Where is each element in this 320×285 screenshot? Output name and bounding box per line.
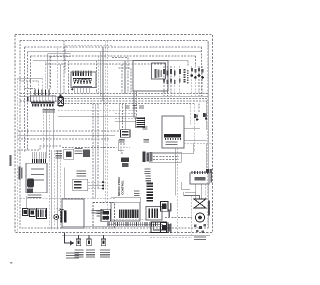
wire risers below display module xyxy=(74,88,90,94)
wire y237.8 bottom right xyxy=(150,237,192,239)
wire bus y208.4 short xyxy=(56,207,62,209)
latch switch dark blob xyxy=(27,189,33,194)
wire corner A into display module xyxy=(65,46,112,73)
wire corner near K1 xyxy=(111,197,140,205)
wire mid bus y101 xyxy=(20,100,208,102)
labels above P4 row xyxy=(125,105,144,109)
spark module dark terminal bar xyxy=(164,134,181,138)
label right of module xyxy=(75,148,83,154)
wire left bus x17.6 xyxy=(17,78,19,233)
label MICRO-PROC CONTROL rotated xyxy=(117,176,124,196)
wire mid bus y96 xyxy=(20,95,208,97)
thermostat TCO dark marks xyxy=(206,169,212,173)
door switch blob A xyxy=(22,208,28,215)
label left margin rotated xyxy=(10,155,12,166)
second blob module xyxy=(83,150,90,158)
door switch DS2 xyxy=(87,235,91,245)
wire right bus x201.5 xyxy=(201,47,203,96)
label row above P1 right xyxy=(134,191,140,197)
wire top bus y56 xyxy=(31,55,196,57)
door switch DS3 xyxy=(101,235,105,245)
wire drop below border left xyxy=(65,233,71,244)
wire latch riser x57.3 xyxy=(56,150,58,230)
label P5 rotated xyxy=(27,97,29,101)
wire corner to fan xyxy=(184,192,200,199)
wire x206 down xyxy=(205,101,207,130)
wire bus y198.3 xyxy=(20,197,115,199)
wire right col y140.5 xyxy=(184,140,207,142)
door lock motor body xyxy=(58,97,64,106)
oven light module outer box xyxy=(133,61,168,92)
label 33 ohm xyxy=(76,171,86,177)
label door latch rotated xyxy=(19,167,23,180)
wires right of ERC header xyxy=(153,154,194,160)
label right of relay xyxy=(143,139,149,142)
capacitor symbol xyxy=(59,209,67,222)
wire latch riser x51.9 xyxy=(51,150,53,230)
ERC output wires box xyxy=(149,152,181,162)
wire labels under P5 xyxy=(43,109,56,112)
wire x43.3 down from P5 xyxy=(42,108,44,149)
label 3.3K text xyxy=(144,169,150,175)
wire to door lock motor xyxy=(59,64,61,94)
label left of module xyxy=(55,151,62,159)
wire x190.6 down xyxy=(190,104,192,126)
junction lamp circle xyxy=(54,215,59,220)
wire dashed x177.3 xyxy=(176,148,178,235)
wire x105.6 vertical xyxy=(105,41,107,203)
wire corner left of DSI xyxy=(182,182,196,192)
connector P5 housing xyxy=(31,95,56,102)
wire mid bus y98.5 xyxy=(58,98,208,100)
label under DS3 xyxy=(100,250,110,258)
wire x136.5 below oven light box xyxy=(136,91,138,118)
wire x193.6 stub xyxy=(193,143,195,154)
wire left bus x27.5 xyxy=(27,52,29,151)
wire below border y235.4 xyxy=(62,234,210,236)
contact dots right-center xyxy=(203,113,207,120)
contact dots second switch group xyxy=(191,74,204,79)
wire x64 vertical xyxy=(63,41,65,94)
spark module box xyxy=(162,116,184,148)
relay box dashed xyxy=(93,203,115,229)
label under relay RL1 xyxy=(119,139,125,142)
wire y135 xyxy=(18,134,115,136)
wire latch riser x54.6 xyxy=(54,150,56,230)
wire x96.5 vertical xyxy=(96,61,98,94)
label under DS2 xyxy=(86,250,95,258)
wire x100.8 dark vertical xyxy=(100,52,102,97)
fan motor terminals xyxy=(194,224,206,233)
fan motor bowtie symbol xyxy=(194,199,206,208)
label column below 3.3K xyxy=(145,176,151,182)
wire x98 vertical xyxy=(97,104,99,191)
probe jack box xyxy=(73,179,88,190)
door switch DS1 xyxy=(76,235,80,245)
wire mid bus y103.5 xyxy=(58,103,194,105)
wire corner C into display module xyxy=(51,57,71,90)
speck bottom-left margin xyxy=(10,262,12,263)
label under probe area xyxy=(92,210,105,214)
wire mid bus y93.5 xyxy=(20,93,208,95)
wire riser to door switch xyxy=(26,196,28,208)
wire dashed x191.9 xyxy=(191,196,193,236)
wire stubs above P9 xyxy=(32,152,45,159)
probe wire end dots xyxy=(102,181,104,190)
connector P2 dark pin stack xyxy=(146,183,153,202)
wire x57.3 vertical xyxy=(56,48,58,94)
door lock motor terminal xyxy=(59,94,61,97)
indicator lamp symbols row xyxy=(74,79,92,85)
connector P1 housing box xyxy=(111,202,140,221)
connector P9 pin row xyxy=(32,159,46,163)
relay RL1 block xyxy=(121,130,131,137)
wire left stub y78 xyxy=(18,77,43,79)
fan motor winding circle xyxy=(195,213,204,222)
wire x134 below oven light box xyxy=(133,91,135,118)
wire y139 xyxy=(18,138,110,140)
pin number labels above P3 xyxy=(73,70,92,71)
DSI spark module box xyxy=(190,171,209,184)
door switch blob B xyxy=(29,209,35,217)
latch motor dark blob xyxy=(27,179,34,188)
wire left bus x24.5 xyxy=(24,47,26,152)
spark electrode box upper xyxy=(160,202,168,212)
wire y226.6 xyxy=(62,226,165,228)
wire left stub y88.5 xyxy=(25,88,36,90)
svg-text:CONTROL: CONTROL xyxy=(121,180,125,195)
wire corners top of ERC xyxy=(118,140,130,153)
connector P5 dark contact row xyxy=(31,102,54,103)
oven light module inner box xyxy=(152,63,166,79)
wire x46.1 down from P5 xyxy=(45,108,47,159)
wire x95.5 vertical xyxy=(95,104,97,199)
wires feeding center connector xyxy=(58,110,136,121)
outer dashed border of wiring diagram xyxy=(15,35,213,233)
inner border wire loop (L1 bus) xyxy=(20,41,208,229)
wire riser lock motor xyxy=(64,168,66,200)
label under fan motor xyxy=(194,237,206,241)
wire x199 down xyxy=(198,104,200,114)
relay label text xyxy=(97,210,100,216)
wire right bus x195.5 xyxy=(195,56,197,66)
wire stepped dashed into latch xyxy=(18,146,62,150)
label right of electrode upper xyxy=(170,203,172,212)
connector P4 dark pin stack xyxy=(136,117,145,127)
display module box DSP xyxy=(71,72,96,88)
wire right col y143.4 xyxy=(184,142,213,144)
wire x175.2 vertical xyxy=(174,148,176,196)
hatched multiwire bus y222 xyxy=(108,222,159,226)
connector P1 dark header xyxy=(119,210,139,219)
oven light label text xyxy=(154,69,162,78)
wires DSI box to fan xyxy=(196,184,206,199)
connector P5 lower pins xyxy=(32,104,54,107)
label right of electrode lower xyxy=(170,224,172,233)
wire left bus x30.5 xyxy=(30,56,32,95)
connector block bottom-left xyxy=(37,208,47,218)
wires into relay RL1 xyxy=(120,104,126,130)
fuse box at bottom border xyxy=(151,222,170,233)
wire y217.5 right xyxy=(165,217,192,219)
relay contacts dark cluster xyxy=(101,209,110,221)
wire x194.6 down dashed xyxy=(194,104,196,153)
wire x93 vertical xyxy=(92,104,94,199)
ERC input header dark glyphs xyxy=(142,151,152,162)
label DSI rotated xyxy=(210,173,212,183)
connector P5 cell dividers xyxy=(33,95,55,102)
wire top bus y60.5 xyxy=(33,60,188,62)
wire top bus y51.5 xyxy=(28,51,202,53)
wires probe jack to right xyxy=(88,182,104,188)
wire right col y128 xyxy=(184,127,200,129)
relay K1 box xyxy=(146,207,170,221)
label below border left xyxy=(66,252,79,258)
wire latch riser x49.2 xyxy=(48,150,50,230)
ground arrow below border xyxy=(70,241,74,246)
wire top bus y47 xyxy=(25,46,202,48)
wire y131 xyxy=(18,130,120,132)
wire x107.8 vertical xyxy=(107,41,109,222)
wire latch riser x60.0 xyxy=(59,150,61,230)
wire x68.5 vertical xyxy=(68,61,70,94)
wire left stub y81 xyxy=(20,80,39,82)
wire display module bottom rail xyxy=(73,86,93,88)
wire x49.8 down from P5 xyxy=(49,108,51,159)
wire x98.8 vertical xyxy=(98,56,100,94)
wire right bus x188 xyxy=(187,61,189,67)
wire stubs above P5 xyxy=(35,56,49,95)
latch assembly box xyxy=(26,163,47,193)
wire x103 dark vertical xyxy=(102,47,104,101)
wire y147.5 dashed xyxy=(62,147,117,149)
wires top-right switch bank drops xyxy=(164,66,180,96)
wire y219.8 xyxy=(103,219,146,221)
labels second switch group xyxy=(191,68,204,73)
wires top-right second switch group xyxy=(192,66,203,96)
wire top bus y64 xyxy=(45,63,165,65)
transformer T1 dark cluster xyxy=(121,158,129,167)
spark module label xyxy=(165,142,177,146)
wire corners into oven light box xyxy=(112,58,131,94)
wire corner B into display module xyxy=(48,54,71,89)
wire right bus x208 xyxy=(207,41,209,228)
spark electrode box lower xyxy=(160,223,168,233)
oven sensor marks xyxy=(194,114,199,121)
wire x103 lower vertical xyxy=(102,101,104,182)
small module box xyxy=(64,149,74,159)
label fan motor rotated xyxy=(208,200,210,215)
wire junction dot x72 y89 xyxy=(71,88,73,90)
latch text rows xyxy=(31,169,44,181)
wire right col x206.8 vertical xyxy=(206,143,208,168)
switch symbols lower row xyxy=(163,79,181,85)
label block bake broil rotated xyxy=(184,69,189,83)
latch lower component marks xyxy=(28,194,42,198)
label F1 text xyxy=(143,126,148,129)
label under DS1 xyxy=(75,250,84,258)
wire x53.4 down from P5 xyxy=(52,108,54,149)
lock motor block box xyxy=(62,199,84,228)
connector P3 pin row on display module xyxy=(73,73,92,77)
switch symbols upper row xyxy=(163,69,181,75)
spark module pins xyxy=(165,138,181,140)
